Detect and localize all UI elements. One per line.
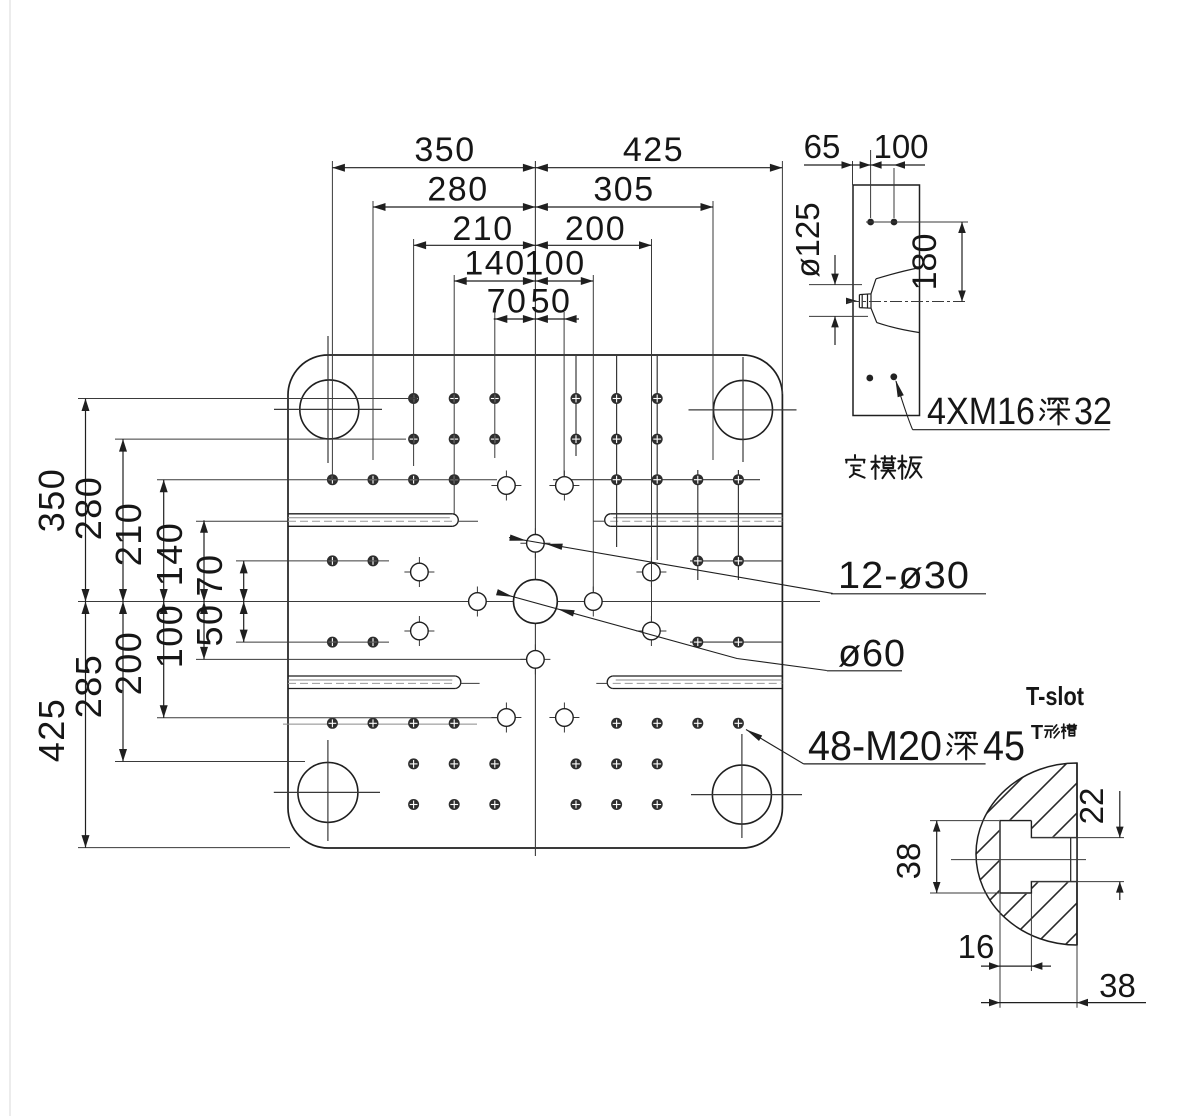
left dimension extension lines [78,398,417,400]
dimension 70 left [243,561,245,602]
hole column construction lines [575,356,577,456]
dimension 280 top [373,206,535,208]
side view sprue bell mouth [859,268,919,333]
dimension 210 top [414,244,536,246]
svg-text:ø60: ø60 [838,633,906,675]
dimension 425 top [535,167,782,169]
hole row construction lines [553,479,760,481]
label ding-mo-ban (fixed platen) [846,455,865,478]
T-slot groove upper-left [288,513,453,515]
dimension 350 top [332,167,535,169]
svg-text:210: 210 [452,210,513,248]
tie-bar hole top-right [714,380,773,439]
T-slot groove lower-left [288,675,455,677]
svg-text:100: 100 [873,128,928,165]
dimension 425 left [85,602,87,848]
svg-text:32: 32 [1074,391,1112,433]
svg-text:100: 100 [149,604,190,669]
side view lower mounting holes (4XM16) [866,375,873,382]
tie-bar hole bottom-right [712,765,771,824]
side view sprue centerline [848,301,968,303]
48-M20 threaded holes grid [408,393,419,404]
svg-text:48-M20: 48-M20 [808,722,942,769]
dia60 central locating hole [514,580,558,624]
leader 48-M20 [746,730,804,764]
svg-text:70: 70 [487,283,528,321]
leader dia60 [498,593,827,671]
12 x dia30 ejector holes [491,485,521,487]
svg-text:280: 280 [68,476,109,541]
svg-text:22: 22 [1073,788,1110,825]
svg-text:285: 285 [68,654,109,719]
top dimension extension lines [331,161,333,480]
dimension dia125 side view [809,284,862,286]
dimension 180 side view [961,222,963,302]
svg-text:200: 200 [108,631,149,696]
svg-text:4XM16: 4XM16 [927,391,1035,433]
svg-text:16: 16 [958,928,995,965]
dimension 200 left [163,602,165,718]
T-slot profile outline [1000,821,1077,893]
dimension 70 top [494,318,579,320]
tie-bar hole top-left [300,380,359,439]
svg-text:50: 50 [531,283,572,321]
T-slot groove lower-right [613,675,783,677]
svg-text:350: 350 [31,468,72,533]
svg-text:T: T [1031,722,1043,744]
svg-text:100: 100 [524,245,585,283]
svg-text:140: 140 [464,245,525,283]
dimension 16 t-slot [999,893,1001,1008]
svg-text:65: 65 [804,128,841,165]
svg-text:38: 38 [890,843,927,880]
svg-text:180: 180 [906,234,944,291]
dimension 350 left [85,399,87,602]
svg-text:ø125: ø125 [789,202,826,277]
svg-text:210: 210 [108,502,149,567]
dimension 200 top [535,244,651,246]
dimension 280 left [122,439,124,601]
dimension 38 t-slot left [930,820,999,822]
svg-text:50: 50 [189,603,230,646]
svg-text:12-ø30: 12-ø30 [838,555,970,597]
dimension 22 t-slot right [1031,837,1124,839]
vertical centerline [534,161,536,856]
svg-text:200: 200 [565,210,626,248]
svg-text:T-slot: T-slot [1026,681,1084,711]
svg-text:305: 305 [593,171,654,209]
dimension 140 left [203,520,205,601]
svg-text:38: 38 [1099,967,1136,1004]
dimension 100 left [203,602,205,660]
T-slot detail hatched half disc [976,763,1077,945]
svg-text:350: 350 [414,131,475,169]
T-slot groove upper-right [610,513,782,515]
dimension 210 left [163,480,165,602]
plate outline (fixed platen plan view) [288,355,782,848]
svg-text:45: 45 [983,722,1025,769]
svg-text:425: 425 [623,131,684,169]
dimension 285 left [122,602,124,762]
dimension 65 100 extension lines [852,161,854,185]
leader 12-dia30 [509,538,833,594]
svg-text:70: 70 [189,553,230,596]
horizontal centerline [78,601,820,603]
svg-text:140: 140 [149,522,190,587]
svg-text:425: 425 [31,698,72,763]
dimension 65 / 100 side view [804,164,925,166]
dimension 140 top [454,280,535,282]
T-slot centerline [951,859,1086,861]
dimension 50 left [243,602,245,643]
dimension 50 top [535,315,548,323]
side view upper mounting holes [867,219,874,226]
leader 4XM16 [896,381,913,430]
dimension 38 t-slot bottom [1076,945,1078,1008]
dimension 100 top [535,280,593,282]
side view plate body [853,185,920,416]
svg-text:280: 280 [427,171,488,209]
dimension 305 top [535,206,713,208]
tie-bar hole bottom-left [298,762,358,822]
